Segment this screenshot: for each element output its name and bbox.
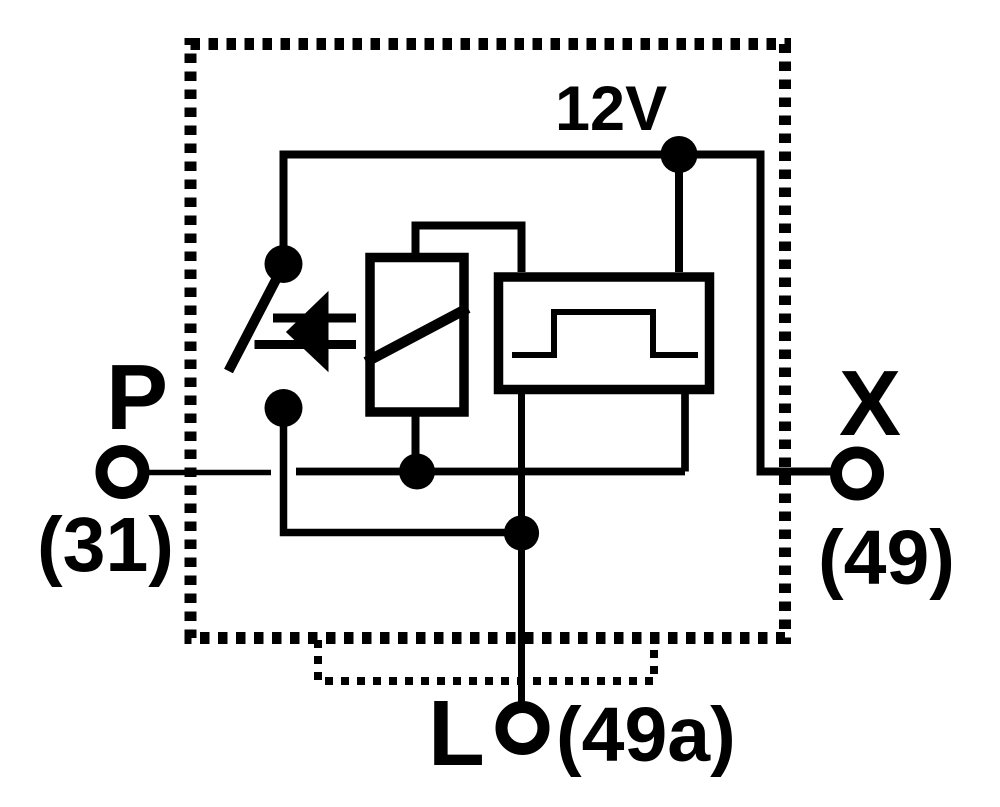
- terminal P (31) open circle: [102, 451, 144, 493]
- relay coil K1 (box with diagonal): [366, 258, 468, 413]
- svg-text:P: P: [106, 345, 168, 449]
- relay enclosure dashed border: [191, 44, 786, 638]
- wire: 12V top rail: [280, 151, 761, 159]
- svg-text:X: X: [839, 351, 901, 455]
- actuation arrow upper shaft line: [273, 314, 356, 323]
- wire: internal P rail: [296, 468, 685, 476]
- node: 12V junction: [661, 136, 698, 173]
- wire: 12V junction to timer box top pin: [675, 155, 683, 273]
- wire: timer box bottom-right pin down to P rail: [681, 390, 689, 472]
- svg-text:12V: 12V: [555, 74, 667, 144]
- sub-module dashed boundary (tab below enclosure): [318, 640, 654, 681]
- switch lever: [229, 270, 282, 371]
- node: switch lower contact: [265, 389, 303, 427]
- wire: relay coil bottom pin to P-rail junction: [412, 412, 420, 472]
- pulse waveform symbol: [512, 312, 698, 355]
- node: L junction: [504, 515, 539, 550]
- wire: timer box bottom-left pin down to L junction and L terminal: [518, 390, 525, 703]
- wire: relay coil top pin loop over to timer box: [412, 222, 522, 273]
- node: P rail junction: [399, 454, 435, 490]
- svg-text:(49a): (49a): [556, 692, 736, 778]
- svg-text:(31): (31): [37, 502, 174, 588]
- svg-text:(49): (49): [818, 515, 955, 601]
- wire: switch common up to 12V rail: [280, 155, 288, 264]
- svg-text:L: L: [428, 681, 485, 785]
- timer box U1 (pulse generator): [499, 277, 710, 390]
- wire: P terminal lead (thin, outside break): [148, 470, 271, 476]
- actuation arrow lower shaft line: [255, 340, 357, 349]
- terminal L (49a) open circle: [502, 707, 544, 749]
- wire: rail drop to X terminal: [757, 151, 833, 472]
- node: switch upper contact: [265, 245, 303, 283]
- actuation arrow head: [286, 291, 329, 372]
- wire: switch lower contact down and right to L junction: [280, 408, 522, 533]
- terminal X (49) open circle: [836, 453, 878, 495]
